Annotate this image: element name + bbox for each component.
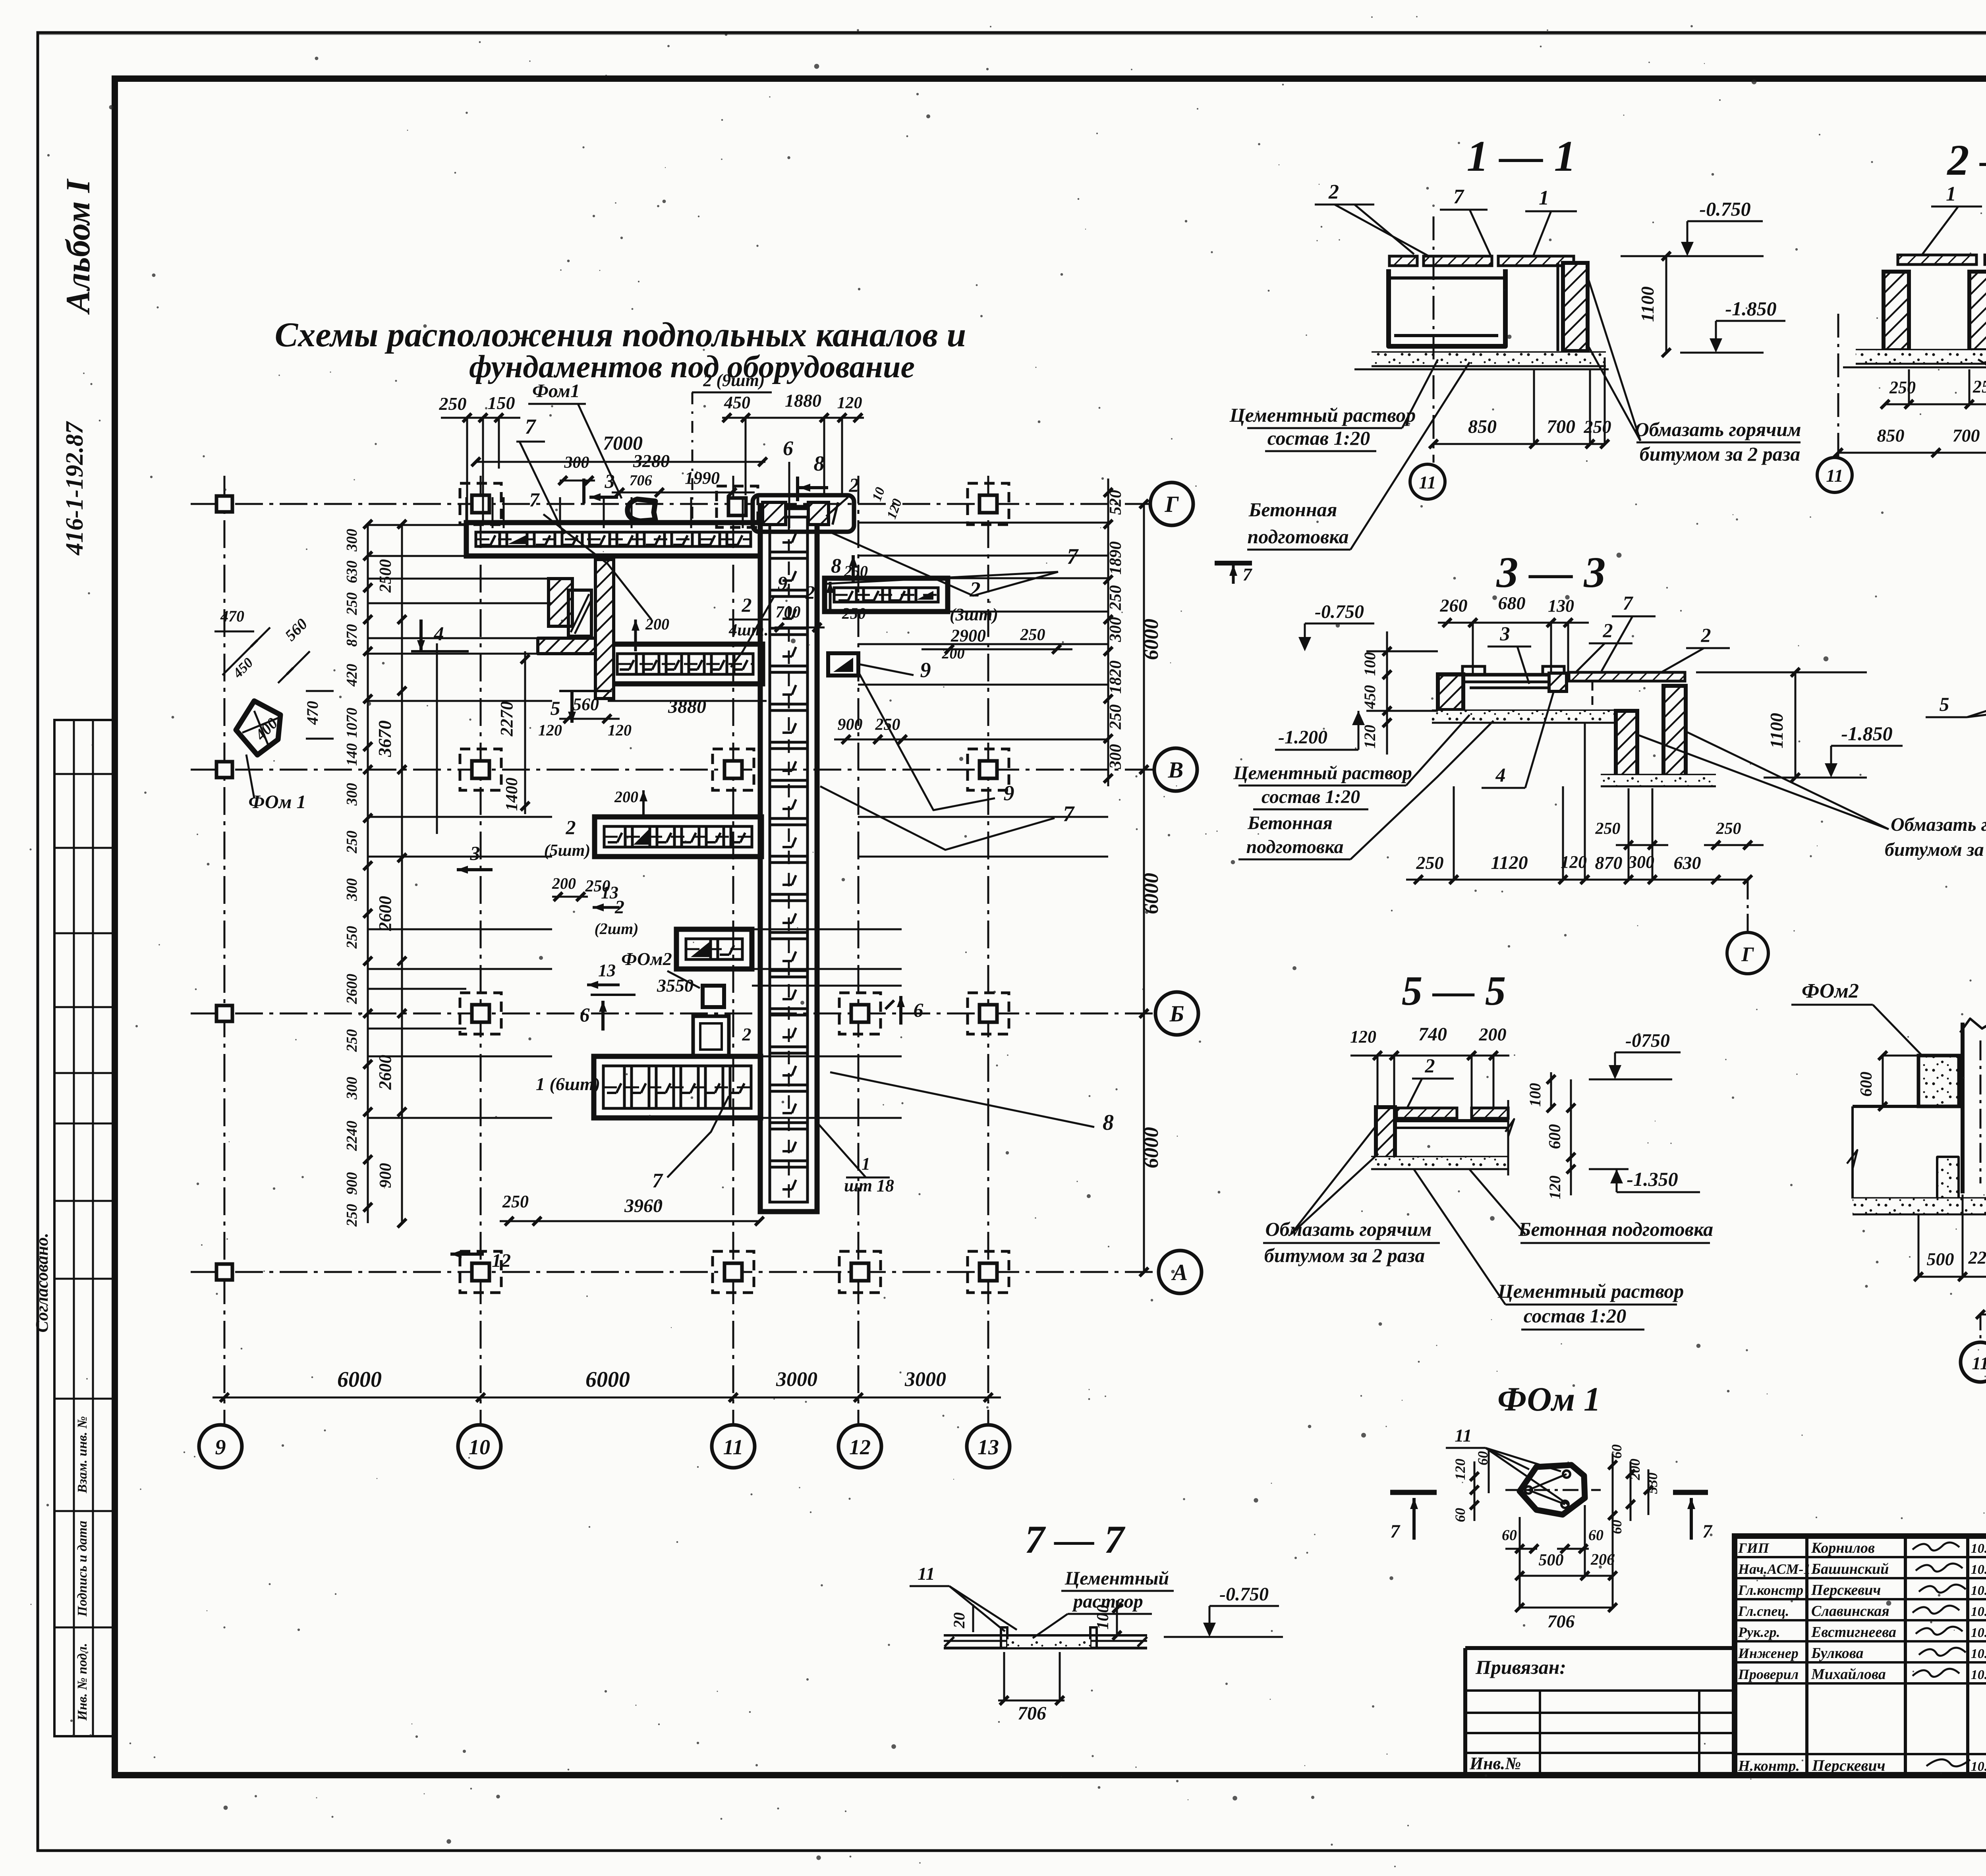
svg-text:3550: 3550 — [657, 975, 694, 996]
svg-text:2: 2 — [805, 582, 815, 603]
svg-text:130: 130 — [1548, 596, 1574, 616]
channel 2 (5шт) ladder lower — [595, 817, 761, 857]
plan grid axis Б — [191, 1013, 1155, 1015]
svg-text:3000: 3000 — [776, 1368, 817, 1391]
svg-text:900: 900 — [344, 1172, 360, 1195]
svg-text:250: 250 — [1972, 377, 1986, 396]
svg-text:Михайлова: Михайлова — [1811, 1666, 1886, 1683]
svg-text:Цементный: Цементный — [1064, 1568, 1169, 1589]
svg-text:6: 6 — [914, 999, 923, 1021]
svg-text:Бетонная подготовка: Бетонная подготовка — [1518, 1218, 1713, 1240]
svg-text:Славинская: Славинская — [1811, 1603, 1889, 1619]
svg-text:Перскевич: Перскевич — [1811, 1582, 1881, 1598]
svg-text:2: 2 — [1701, 624, 1711, 646]
upper-right channel block — [753, 495, 854, 532]
svg-text:2: 2 — [566, 816, 576, 838]
channel 2 (2шт) small ladder — [676, 929, 752, 969]
svg-text:ГИП: ГИП — [1738, 1540, 1770, 1556]
svg-text:630: 630 — [1674, 853, 1701, 873]
svg-text:Цементный раствор: Цементный раствор — [1229, 404, 1416, 426]
svg-text:3670: 3670 — [375, 720, 395, 757]
svg-text:10.86: 10.86 — [1971, 1604, 1986, 1619]
axis circle 10 — [458, 1425, 501, 1468]
svg-text:1880: 1880 — [785, 390, 821, 411]
svg-text:2: 2 — [742, 1024, 752, 1044]
svg-text:870: 870 — [344, 624, 360, 647]
section 3-3 left dim column 100 450 120 — [1386, 631, 1388, 755]
cut mark 3 left mid — [457, 868, 493, 871]
small channel below ФОм2 — [693, 1016, 729, 1057]
svg-text:1 — 1: 1 — 1 — [1467, 132, 1576, 180]
section 3-3 top dims 260 680 130 — [1438, 622, 1589, 624]
svg-text:1400: 1400 — [503, 778, 521, 811]
axis circle Б — [1155, 992, 1198, 1035]
svg-text:470: 470 — [303, 701, 321, 725]
svg-text:-0750: -0750 — [1625, 1030, 1670, 1051]
svg-text:2 (9шт): 2 (9шт) — [703, 371, 765, 390]
section 5-5 slab lines — [1395, 1119, 1508, 1122]
svg-text:Обмазать гор: Обмазать гор — [1891, 814, 1986, 835]
svg-text:4: 4 — [1495, 764, 1506, 786]
svg-text:3960: 3960 — [624, 1195, 663, 1216]
dims above plan 250 150 — [441, 417, 520, 419]
svg-text:560: 560 — [573, 695, 599, 714]
section 2-2 axis + circle 11 — [1837, 314, 1839, 457]
section 3-3 small hatched block mid — [1549, 673, 1567, 691]
svg-text:(2шт): (2шт) — [594, 920, 638, 938]
svg-text:2: 2 — [1425, 1054, 1435, 1077]
svg-text:10.86: 10.86 — [1971, 1759, 1986, 1774]
section 6-6 dim 600 — [1882, 1056, 1884, 1106]
svg-text:5: 5 — [1940, 693, 1949, 715]
axis circle 11 — [712, 1425, 755, 1468]
svg-text:250: 250 — [1595, 820, 1621, 838]
svg-text:250: 250 — [585, 877, 610, 896]
svg-text:1100: 1100 — [1637, 286, 1658, 322]
svg-text:Бетонная: Бетонная — [1247, 813, 1333, 834]
svg-text:300: 300 — [344, 1077, 360, 1100]
ФОм1 detail at left of plan — [236, 701, 280, 755]
svg-text:10.86: 10.86 — [1971, 1583, 1986, 1598]
section 6-6 ground steps — [1851, 1106, 1854, 1199]
cut mark 5 mid — [570, 691, 574, 723]
section 6-6 bedding — [1853, 1197, 1986, 1200]
svg-text:140: 140 — [344, 743, 360, 766]
svg-text:7: 7 — [1067, 544, 1079, 569]
svg-text:2: 2 — [1328, 181, 1339, 203]
svg-text:7: 7 — [1702, 1521, 1713, 1542]
svg-text:-1.850: -1.850 — [1725, 297, 1776, 320]
svg-text:60: 60 — [1588, 1527, 1603, 1544]
svg-text:-0.750: -0.750 — [1219, 1584, 1269, 1605]
section 3-3 top right plate — [1569, 672, 1685, 681]
section 2-2 middle hatched wall — [1969, 272, 1986, 350]
svg-text:фундаментов под оборудование: фундаментов под оборудование — [469, 349, 915, 384]
left dim chains of plan — [367, 524, 369, 1223]
svg-text:250: 250 — [502, 1192, 529, 1211]
svg-text:7: 7 — [1243, 564, 1253, 585]
svg-text:250: 250 — [1416, 853, 1444, 873]
svg-text:2240: 2240 — [344, 1121, 360, 1151]
svg-text:206: 206 — [1590, 1550, 1615, 1568]
svg-text:300: 300 — [344, 878, 360, 901]
plan top extension lines — [466, 497, 468, 528]
svg-text:450: 450 — [1361, 685, 1379, 709]
svg-text:состав 1:20: состав 1:20 — [1267, 427, 1370, 449]
section 3-3 small dims 250 250 — [1616, 844, 1668, 846]
svg-text:5 — 5: 5 — 5 — [1402, 967, 1506, 1014]
svg-text:11: 11 — [1419, 472, 1436, 492]
svg-text:7: 7 — [529, 488, 540, 511]
svg-text:450: 450 — [724, 393, 750, 412]
svg-text:900: 900 — [377, 1163, 395, 1188]
section 2-2 top plates — [1898, 255, 1976, 264]
svg-text:Цементный раствор: Цементный раствор — [1497, 1280, 1684, 1302]
svg-text:7: 7 — [1453, 185, 1464, 208]
section 3-3 dashed vertical — [1592, 682, 1594, 711]
svg-text:120: 120 — [608, 721, 632, 739]
svg-text:120: 120 — [1361, 725, 1379, 749]
svg-text:120: 120 — [1350, 1027, 1376, 1046]
svg-text:120: 120 — [538, 721, 562, 739]
svg-text:420: 420 — [344, 664, 360, 687]
svg-text:9: 9 — [215, 1435, 226, 1459]
section 3-3 L vertical hatched wall — [1616, 711, 1637, 778]
plan grid axis 11 vertical — [732, 476, 734, 1424]
section 3-3 axis circle Г — [1747, 880, 1749, 932]
svg-text:250: 250 — [1584, 417, 1611, 437]
svg-text:300: 300 — [1628, 852, 1654, 872]
section 7-7 flat channel — [944, 1634, 1147, 1637]
section mark 7 right — [1673, 1490, 1708, 1495]
detail ФОм 1 centerlines — [1505, 1489, 1601, 1491]
svg-text:2600: 2600 — [375, 896, 395, 931]
svg-text:Подпись и дата: Подпись и дата — [75, 1521, 90, 1617]
axis circle 9 — [199, 1425, 242, 1468]
svg-text:Фом1: Фом1 — [532, 380, 580, 401]
pit ФОм2 small square — [703, 986, 724, 1007]
svg-text:416-1-192.87: 416-1-192.87 — [61, 421, 88, 556]
svg-text:260: 260 — [1440, 595, 1468, 616]
svg-text:700: 700 — [1547, 416, 1575, 437]
svg-text:2: 2 — [742, 594, 752, 616]
svg-text:10: 10 — [469, 1435, 490, 1459]
svg-text:состав 1:20: состав 1:20 — [1524, 1305, 1627, 1327]
svg-text:(3шт): (3шт) — [950, 605, 998, 624]
svg-text:250: 250 — [344, 1029, 360, 1052]
svg-text:250: 250 — [1716, 820, 1741, 838]
axis 9 small squares — [216, 496, 232, 512]
cut mark 6 up — [601, 1001, 605, 1031]
svg-text:120: 120 — [1546, 1175, 1564, 1199]
plan lower extension lines — [752, 928, 902, 930]
svg-text:7 — 7: 7 — 7 — [1025, 1517, 1126, 1561]
svg-text:4: 4 — [434, 622, 444, 645]
svg-text:3880: 3880 — [668, 696, 706, 717]
svg-text:4шт.: 4шт. — [728, 621, 769, 639]
svg-text:850: 850 — [1468, 416, 1497, 437]
svg-text:300: 300 — [564, 454, 589, 472]
svg-text:100: 100 — [1526, 1083, 1544, 1107]
left margin small stamp table — [54, 720, 115, 1736]
section 6-6 pedestals — [1938, 1157, 1958, 1199]
svg-text:11: 11 — [1826, 465, 1843, 486]
svg-text:250: 250 — [1020, 626, 1045, 644]
svg-text:Схемы расположения подпольных: Схемы расположения подпольных каналов и — [275, 316, 966, 354]
svg-text:630: 630 — [344, 561, 360, 583]
svg-text:ФОм 1: ФОм 1 — [1497, 1380, 1601, 1418]
svg-text:120: 120 — [1452, 1459, 1468, 1480]
svg-text:-1.850: -1.850 — [1841, 722, 1892, 745]
svg-text:706: 706 — [1018, 1703, 1046, 1724]
svg-text:11: 11 — [1455, 1425, 1472, 1446]
section 3-3 top slab — [1438, 673, 1565, 677]
svg-text:250: 250 — [1889, 378, 1916, 397]
svg-text:250: 250 — [344, 1204, 360, 1227]
svg-text:1070: 1070 — [344, 708, 360, 738]
svg-text:850: 850 — [1877, 425, 1905, 446]
column footing Г-11 dashed — [717, 486, 758, 527]
section 6-6 floor lines — [1853, 1105, 1918, 1108]
svg-text:Г: Г — [1164, 491, 1179, 517]
detail ФОм 1 left rotated dims — [1474, 1461, 1476, 1521]
plan grid axis 10 vertical — [480, 476, 482, 1424]
svg-text:6000: 6000 — [1140, 873, 1163, 914]
svg-text:6000: 6000 — [337, 1367, 382, 1392]
svg-text:100: 100 — [1094, 1605, 1112, 1630]
svg-text:Нач.АСМ-1: Нач.АСМ-1 — [1738, 1561, 1811, 1577]
svg-text:60: 60 — [1609, 1444, 1625, 1459]
svg-text:3: 3 — [470, 842, 480, 864]
svg-text:Рук.гр.: Рук.гр. — [1738, 1624, 1780, 1640]
svg-text:6: 6 — [783, 437, 793, 460]
plan grid axis Г — [191, 503, 1150, 505]
svg-text:250: 250 — [439, 394, 467, 414]
axis circle 12 — [838, 1425, 881, 1468]
svg-text:530: 530 — [1644, 1473, 1660, 1494]
svg-text:Цементный раствор: Цементный раствор — [1233, 762, 1412, 784]
section mark 7 left — [1390, 1490, 1437, 1495]
svg-text:300: 300 — [1107, 617, 1125, 643]
plan grid axis А — [191, 1271, 1158, 1273]
svg-text:Альбом I: Альбом I — [59, 178, 97, 315]
svg-text:Корнилов: Корнилов — [1811, 1540, 1875, 1556]
svg-text:Привязан:: Привязан: — [1475, 1656, 1566, 1678]
detail blob 706 plate on axis Г — [628, 499, 655, 521]
svg-text:6: 6 — [580, 1004, 590, 1026]
svg-text:20: 20 — [950, 1612, 968, 1629]
scan edge smudges — [38, 33, 1986, 35]
section 1-1 elevation -1.850 — [1680, 352, 1764, 354]
section 1-1 dim 1100 — [1665, 256, 1667, 353]
svg-text:520: 520 — [1107, 490, 1125, 515]
plan left extension lines group2 — [368, 524, 466, 526]
section 5-5 rotated dims 100 600 120 — [1550, 1072, 1552, 1108]
svg-text:7: 7 — [1623, 592, 1634, 614]
svg-text:Взам. инв. №: Взам. инв. № — [75, 1416, 90, 1494]
section 7-7 dim 706 — [998, 1700, 1064, 1702]
svg-text:Перскевич: Перскевич — [1812, 1756, 1886, 1774]
section 1-1 axis line + circle 11 — [1433, 216, 1435, 463]
section 7-7 level -0.750 — [1209, 1605, 1279, 1607]
svg-text:1890: 1890 — [1107, 541, 1125, 575]
section 1-1 top plates — [1389, 256, 1417, 266]
svg-text:7: 7 — [652, 1170, 663, 1192]
svg-text:706: 706 — [630, 472, 652, 489]
svg-text:Г: Г — [1741, 943, 1754, 966]
svg-text:500: 500 — [1927, 1249, 1954, 1269]
svg-text:250: 250 — [875, 716, 900, 734]
svg-text:8: 8 — [814, 452, 825, 475]
right secondary dim chain — [1107, 479, 1109, 786]
svg-text:10.86: 10.86 — [1971, 1541, 1986, 1556]
section 3-3 right level 1100 -1.850 — [1696, 672, 1867, 674]
svg-text:Бетонная: Бетонная — [1248, 498, 1337, 521]
svg-text:7: 7 — [525, 415, 537, 438]
svg-text:700: 700 — [1953, 425, 1980, 446]
cut mark 4 left — [419, 620, 423, 651]
svg-text:870: 870 — [1595, 853, 1623, 873]
svg-text:7: 7 — [1063, 802, 1075, 826]
svg-text:3: 3 — [1500, 622, 1510, 645]
section 6-6 concrete block ФОм2 — [1918, 1056, 1959, 1106]
section 1-1 bedding — [1372, 351, 1606, 354]
svg-text:Б: Б — [1169, 1001, 1184, 1027]
svg-text:900: 900 — [838, 716, 863, 734]
section 1-1 bottom dims 850 700 250 — [1433, 443, 1605, 445]
svg-text:2900: 2900 — [950, 626, 986, 645]
svg-text:740: 740 — [1418, 1024, 1447, 1045]
section 3-3 bedding right — [1601, 774, 1716, 777]
section 1-1 channel U-walls — [1389, 269, 1505, 346]
svg-text:-0.750: -0.750 — [1699, 198, 1750, 220]
axis circle Г — [1150, 483, 1193, 525]
svg-text:1: 1 — [1946, 183, 1956, 205]
section 5-5 top plates — [1397, 1108, 1457, 1118]
svg-text:9: 9 — [778, 572, 788, 594]
channel 2: top horizontal run — [466, 523, 760, 556]
cut mark 13 3550 below — [587, 984, 620, 986]
privyazan box — [1465, 1646, 1735, 1650]
channel 1 (6шт) bottom ladder — [594, 1056, 761, 1118]
svg-text:2: 2 — [849, 474, 859, 496]
plan grid axis В — [191, 769, 1154, 771]
right dimension chain 6000 between axes — [1143, 504, 1145, 1272]
svg-text:200: 200 — [614, 788, 638, 806]
svg-text:7: 7 — [1390, 1521, 1401, 1542]
svg-text:11: 11 — [723, 1435, 743, 1459]
section 5-5 left hatched wall — [1376, 1107, 1395, 1159]
svg-text:-1.350: -1.350 — [1627, 1168, 1678, 1190]
svg-text:120: 120 — [837, 394, 862, 412]
svg-text:В: В — [1168, 757, 1184, 783]
svg-text:3280: 3280 — [633, 451, 670, 471]
section 3-3 top notches — [1462, 666, 1485, 675]
svg-text:200: 200 — [942, 645, 965, 662]
privyazan grid — [1465, 1689, 1735, 1692]
svg-text:9: 9 — [1004, 781, 1014, 805]
section mark 7 arrow above 3-3 — [1215, 561, 1252, 566]
detail ФОм 1 bottom dims — [1505, 1548, 1537, 1550]
ФОм1 diagonal dims — [222, 627, 270, 675]
svg-text:1820: 1820 — [1107, 660, 1125, 694]
svg-text:150: 150 — [488, 393, 515, 413]
plan right extension lines to right dim chain — [858, 522, 1108, 524]
svg-text:600: 600 — [1857, 1072, 1876, 1097]
svg-text:250: 250 — [842, 604, 866, 622]
small pit with wedge 9 — [828, 653, 858, 676]
svg-text:Гл.констр: Гл.констр — [1738, 1582, 1803, 1598]
svg-text:битумом за 2 раза: битумом за 2 раза — [1640, 443, 1800, 465]
section 2-2 bottom dims — [1885, 403, 1986, 405]
svg-text:шт 18: шт 18 — [844, 1176, 894, 1195]
svg-text:Обмазать горячим: Обмазать горячим — [1265, 1218, 1432, 1240]
svg-text:10.86: 10.86 — [1971, 1646, 1986, 1661]
svg-text:состав 1:20: состав 1:20 — [1262, 786, 1360, 807]
svg-text:Гл.спец.: Гл.спец. — [1738, 1603, 1789, 1619]
svg-text:12: 12 — [492, 1250, 511, 1271]
axis circle 13 — [967, 1425, 1010, 1468]
detail ФОм 1 plate outline — [1520, 1465, 1585, 1515]
section 3-3 right hatched wall — [1663, 686, 1686, 778]
svg-text:Инв. № подл.: Инв. № подл. — [75, 1643, 90, 1721]
svg-text:680: 680 — [1498, 593, 1526, 613]
section 1-1 right hatched wall — [1563, 263, 1588, 351]
svg-text:-1.200: -1.200 — [1278, 727, 1327, 748]
svg-text:битумом за: битумом за — [1885, 839, 1984, 860]
channel trunk 7 vertical run — [760, 508, 817, 1212]
svg-text:8: 8 — [831, 555, 841, 577]
section 2-2 bedding — [1856, 349, 1986, 352]
section 5-5 break mark right — [1507, 1100, 1509, 1175]
svg-text:2500: 2500 — [377, 559, 395, 593]
hatched wall left complex — [549, 579, 572, 626]
svg-text:ФОм2: ФОм2 — [621, 949, 672, 969]
svg-text:60: 60 — [1502, 1527, 1517, 1544]
svg-text:подготовка: подготовка — [1246, 836, 1344, 857]
svg-text:ФОм2: ФОм2 — [1802, 980, 1859, 1002]
plan grid axis 9 vertical — [224, 476, 226, 1424]
section 5-5 level -1.350 — [1589, 1168, 1629, 1170]
svg-text:-0.750: -0.750 — [1315, 601, 1364, 622]
svg-text:3000: 3000 — [904, 1368, 946, 1391]
section 6-6 bottom dims — [1918, 1276, 1986, 1278]
svg-text:220: 220 — [1968, 1247, 1986, 1268]
title block outer box — [1735, 1536, 1986, 1775]
svg-text:11: 11 — [1972, 1353, 1986, 1373]
section 3-3 left elevations — [1366, 650, 1438, 652]
axis circle В — [1154, 748, 1197, 791]
svg-text:Инв.№: Инв.№ — [1469, 1754, 1521, 1773]
detail ФОм 1 right dim ladder — [1612, 1453, 1614, 1529]
section 6-6 axis circle 11 — [1980, 1314, 1982, 1342]
cut mark 12 — [450, 1253, 484, 1256]
cut mark 6 right — [899, 996, 902, 1025]
svg-text:200: 200 — [645, 615, 669, 633]
plan left extension lines — [368, 578, 552, 580]
svg-text:12: 12 — [849, 1435, 871, 1459]
svg-text:Булкова: Булкова — [1811, 1645, 1864, 1662]
section 5-5 level -0750 — [1589, 1079, 1672, 1081]
svg-text:1 (6шт): 1 (6шт) — [536, 1074, 600, 1094]
svg-text:1100: 1100 — [1766, 713, 1787, 748]
svg-text:Евстигнеева: Евстигнеева — [1811, 1624, 1896, 1641]
svg-text:6000: 6000 — [1140, 619, 1163, 660]
section 3-3 bottom dims — [1406, 879, 1748, 881]
svg-text:11: 11 — [918, 1563, 935, 1584]
svg-text:1: 1 — [862, 1154, 870, 1173]
svg-text:470: 470 — [220, 607, 244, 625]
